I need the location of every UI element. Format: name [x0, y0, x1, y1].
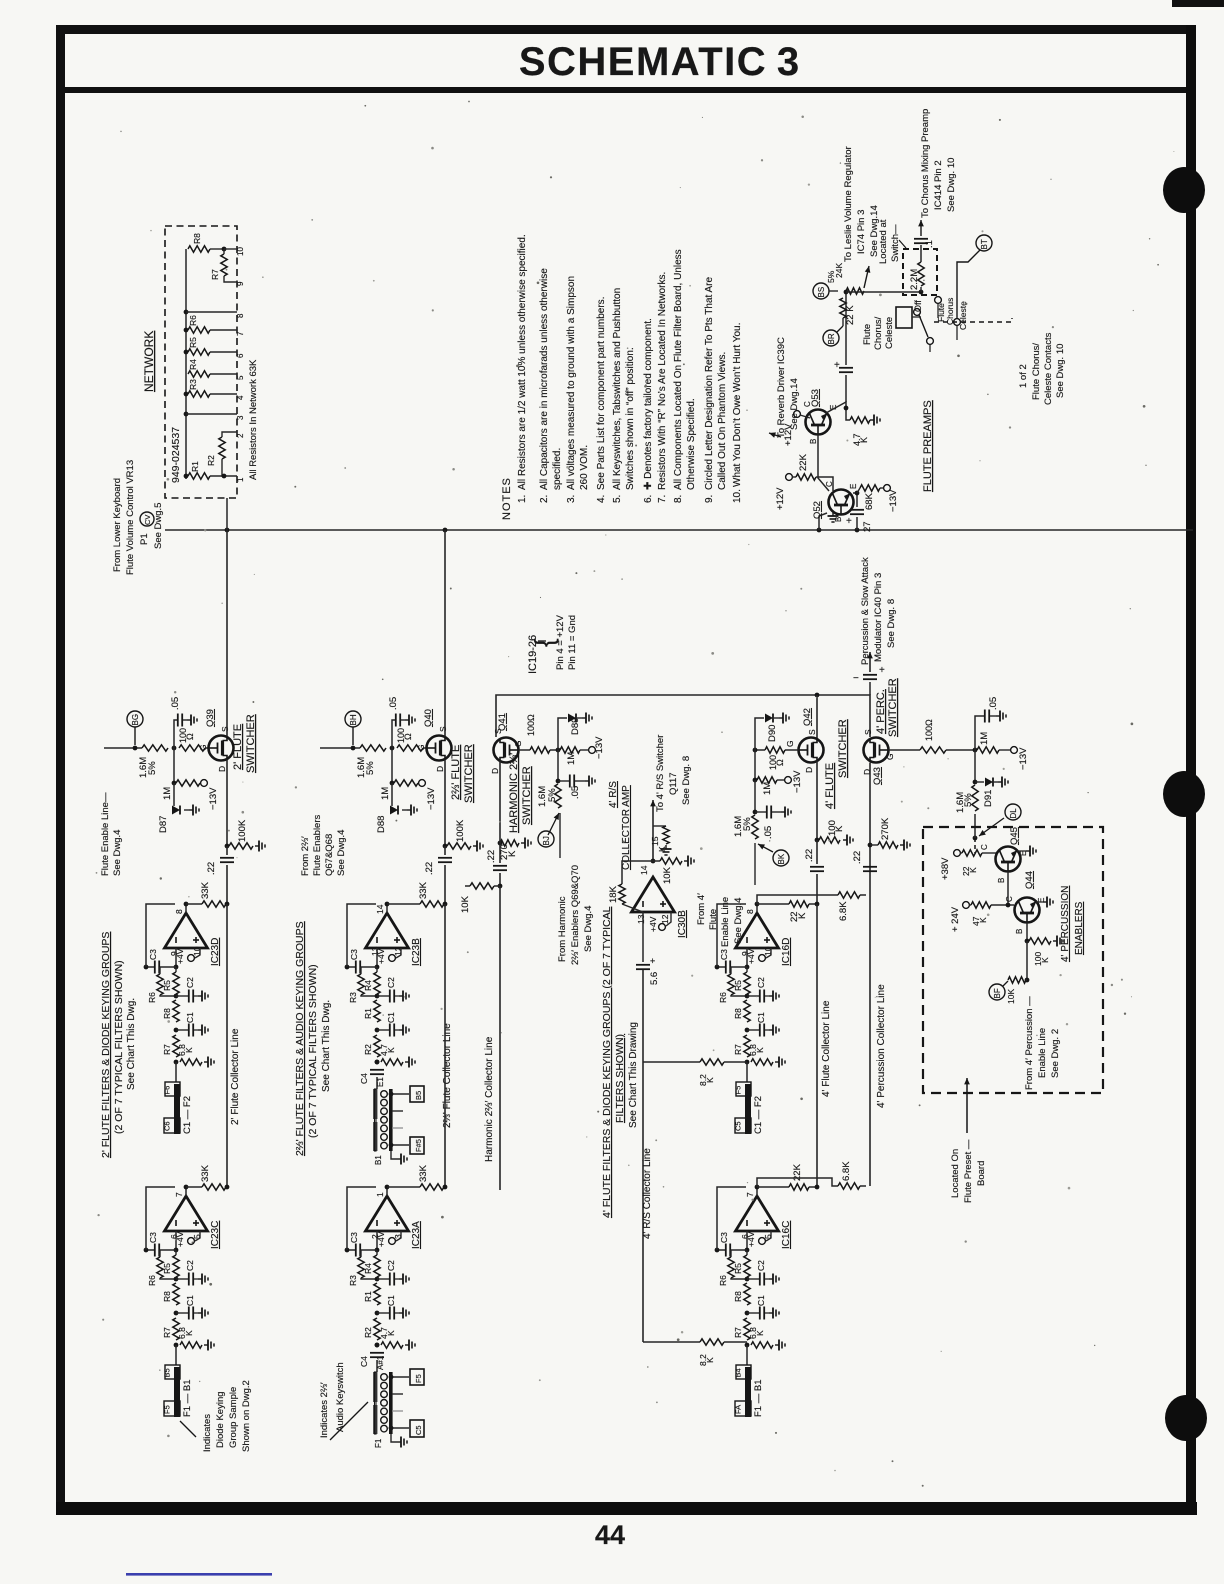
capacitor 5.6 on R/S collector line [642, 912, 644, 962]
ground at Q41 270K [521, 842, 525, 844]
resistor 100 ohm at Q42 gate [785, 749, 799, 751]
resistor R5 [746, 1250, 748, 1255]
capacitor C2 [176, 1278, 188, 1280]
svg-text:P1: P1 [139, 533, 150, 545]
wire and arrow to R/S switcher [652, 800, 654, 861]
svg-text:All Components Located On Flut: All Components Located On Flute Filter B… [673, 249, 684, 490]
resistor R5 [184, 350, 189, 355]
svg-text:100K: 100K [237, 819, 248, 842]
capacitor C2 [176, 995, 188, 997]
svg-text:Celeste: Celeste [884, 317, 895, 349]
svg-text:C3: C3 [719, 949, 729, 960]
keyswitch top note box F5 [410, 1369, 424, 1385]
svg-text:IC74 Pin 3: IC74 Pin 3 [856, 210, 867, 254]
contact celeste [954, 319, 961, 326]
svg-text:K: K [968, 867, 978, 873]
svg-text:+4V: +4V [648, 916, 658, 932]
keying sample boxes F5-C5 [736, 1082, 751, 1096]
svg-text:F6: F6 [163, 1086, 172, 1095]
svg-text:5: 5 [236, 375, 245, 380]
svg-text:18K: 18K [608, 885, 619, 903]
ground at Q42 .05 cap [772, 811, 781, 813]
svg-text:IC23A: IC23A [411, 1221, 422, 1249]
resistor 6.8K to ground [180, 1059, 202, 1065]
resistor 270K at Q43 collector [868, 843, 873, 848]
feedback wire to output node [347, 1187, 376, 1250]
svg-text:C2: C2 [185, 1260, 195, 1271]
resistor 8.2K on 4-ft R/S line [643, 1061, 700, 1063]
capacitor 27 at Q52 emitter [853, 493, 857, 507]
resistor 22K at Q45 [960, 852, 962, 854]
svg-text:100Ω: 100Ω [924, 719, 934, 741]
node Q41 enable feed [548, 813, 559, 835]
binding hole mark middle right [1163, 771, 1205, 817]
svg-text:BS: BS [817, 287, 826, 298]
svg-text:C3: C3 [148, 949, 158, 960]
svg-text:IC414 Pin 2: IC414 Pin 2 [933, 160, 944, 210]
svg-text:5.: 5. [612, 495, 623, 503]
svg-text:BF: BF [993, 988, 1002, 998]
capacitor percussion coupling to modulator [869, 682, 871, 695]
svg-text:B4: B4 [734, 1368, 743, 1377]
resistor 4.7K at Q53 emitter [826, 402, 850, 420]
svg-text:FILTERS SHOWN): FILTERS SHOWN) [614, 1034, 626, 1123]
svg-text:260 VOM.: 260 VOM. [579, 445, 590, 490]
resistor R1 [374, 1283, 380, 1305]
svg-text:Ω: Ω [403, 733, 413, 740]
svg-text:5.6: 5.6 [649, 972, 660, 985]
svg-text:.05: .05 [388, 697, 399, 710]
svg-text:C2: C2 [386, 1260, 396, 1271]
node below R7 [745, 1343, 750, 1348]
MOSFET Q41 [494, 738, 519, 763]
ground at C1 [194, 1312, 198, 1314]
resistor 100K on Q40 collector [443, 844, 448, 849]
resistor 6.8K to ground [751, 1059, 773, 1065]
resistor 22K feedback IC16D [757, 903, 789, 905]
svg-text:K: K [755, 1047, 765, 1053]
svg-text:4' PERC.: 4' PERC. [875, 689, 887, 734]
svg-text:All Resistors are 1/2 watt 10%: All Resistors are 1/2 watt 10% unless ot… [517, 234, 528, 490]
svg-text:33K: 33K [200, 881, 211, 899]
wire 4-ft R/S collector line [642, 970, 644, 1342]
svg-text:SWITCHER: SWITCHER [463, 744, 475, 803]
svg-text:2' Flute Collector Line: 2' Flute Collector Line [230, 1028, 241, 1125]
svg-text:R8: R8 [192, 233, 202, 244]
resistor R8 [744, 1283, 750, 1305]
svg-text:F1 — B1: F1 — B1 [182, 1380, 193, 1418]
svg-text:5%: 5% [365, 761, 376, 775]
svg-text:Located at: Located at [878, 219, 889, 264]
svg-text:Called Out On Phantom Views.: Called Out On Phantom Views. [717, 352, 728, 490]
svg-text:B1: B1 [374, 1155, 383, 1165]
audio keyswitch E1-B1 [376, 1077, 378, 1089]
svg-text:S: S [220, 726, 230, 732]
svg-text:1M: 1M [762, 782, 773, 795]
svg-text:C1: C1 [386, 1012, 396, 1023]
svg-text:Otherwise Specified.: Otherwise Specified. [686, 398, 697, 490]
svg-text:10: 10 [236, 247, 245, 256]
ground at C1 [765, 1312, 769, 1314]
svg-text:Q52: Q52 [812, 501, 823, 519]
svg-text:10K: 10K [662, 866, 673, 884]
wire 4-ft flute enable feed [754, 843, 756, 885]
svg-text:G: G [513, 740, 523, 747]
resistor 1.6M 5% at Q39 gate [142, 745, 168, 751]
node Q42 enable feed [758, 844, 773, 852]
ground at C1 [194, 1029, 198, 1031]
capacitor C4 [375, 1343, 380, 1348]
svg-text:Diode Keying: Diode Keying [215, 1391, 226, 1448]
ground at 6.8K [204, 1061, 208, 1063]
svg-text:27: 27 [862, 521, 873, 532]
resistor 1.6M 5% at Q41 [555, 784, 561, 808]
label to reverb driver [769, 433, 781, 437]
op-amp IC16D [736, 913, 779, 948]
svg-text:C: C [1005, 896, 1014, 902]
label indicates audio keyswitch [330, 1402, 368, 1440]
node below R7 [745, 1060, 750, 1065]
svg-text:From Harmonic: From Harmonic [557, 896, 568, 962]
ground at C2 [765, 995, 769, 997]
svg-text:D87: D87 [158, 816, 169, 833]
svg-text:R3: R3 [348, 992, 358, 1003]
wire 2-ft flute collector line lower [226, 904, 228, 1187]
svg-text:−: − [853, 673, 859, 684]
svg-text:See Dwg. 8: See Dwg. 8 [681, 756, 692, 805]
node junction 4-ft switcher on bus [815, 693, 820, 698]
network left rail wire [185, 249, 187, 479]
svg-text:To 4' R/S Switcher: To 4' R/S Switcher [655, 735, 666, 812]
wire op-amp inverting input feed [376, 1231, 378, 1250]
wire op-amp inverting input feed [376, 948, 378, 967]
svg-text:Ω: Ω [775, 759, 785, 766]
svg-text:1M: 1M [162, 787, 173, 800]
wire IC16D output node [756, 904, 758, 913]
resistor 33K feedback [420, 1184, 444, 1190]
ground at Q40 .05 cap [401, 719, 405, 721]
resistor 33K feedback [420, 901, 444, 907]
node below R5 [745, 994, 750, 999]
diode D90 [755, 718, 764, 750]
svg-text:R8: R8 [733, 1008, 743, 1019]
svg-text:1M: 1M [380, 787, 391, 800]
svg-text:D89: D89 [570, 718, 581, 735]
svg-text:.22: .22 [206, 862, 217, 875]
keying sample boxes B5-F5 [165, 1365, 180, 1379]
svg-text:+: + [650, 956, 655, 966]
ground at Q42 100K [843, 839, 847, 841]
blue pen mark bottom left [126, 1573, 272, 1576]
svg-text:See Dwg.4: See Dwg.4 [336, 830, 347, 876]
svg-text:G: G [198, 744, 208, 751]
svg-text:R7: R7 [733, 1327, 743, 1338]
network pin 8 wire [184, 310, 189, 315]
svg-text:IC16D: IC16D [781, 938, 792, 966]
node below R4 [375, 1277, 380, 1282]
diode D87 [173, 783, 175, 806]
resistor 33K feedback [202, 901, 226, 907]
resistor 100 ohm at Q43 gate [889, 749, 921, 751]
svg-text:ENABLERS: ENABLERS [1074, 901, 1085, 955]
resistor R8 [173, 1283, 179, 1305]
capacitor .05 at Q40 [392, 720, 395, 748]
svg-text:1M: 1M [979, 732, 990, 745]
resistor 100 ohm at Q41 gate [519, 749, 531, 751]
resistor 22K to BR [840, 298, 846, 318]
terminal -13V at Q40 [419, 780, 426, 787]
resistor 22K feedback IC16C [756, 1187, 758, 1196]
svg-text:R7: R7 [210, 269, 220, 280]
svg-text:33K: 33K [418, 881, 429, 899]
op-amp IC30B [632, 877, 675, 912]
capacitor C1 [747, 1029, 759, 1031]
capacitor .22 on harmonic collector line [493, 865, 507, 867]
svg-text:IC30B: IC30B [677, 910, 688, 938]
svg-text:6.8K: 6.8K [841, 1161, 852, 1181]
ground at C1 [765, 1029, 769, 1031]
svg-text:S: S [438, 726, 448, 732]
capacitor .1 to chorus mixing preamp [914, 238, 928, 240]
svg-text:To Leslie Volume Regulator: To Leslie Volume Regulator [843, 146, 854, 262]
svg-text:+ 24V: + 24V [950, 906, 961, 932]
resistor R7 [744, 1035, 750, 1057]
svg-text:BT: BT [980, 239, 989, 249]
node below R4 [375, 994, 380, 999]
svg-text:All Capacitors are in microfar: All Capacitors are in microfarads unless… [539, 268, 550, 490]
svg-text:9.: 9. [704, 495, 715, 503]
keyswitch contact wires [392, 1376, 409, 1378]
svg-text:Q67&Q68: Q67&Q68 [324, 834, 335, 876]
svg-text:D: D [804, 767, 814, 773]
resistor 100 ohm at Q40 gate [397, 745, 423, 751]
svg-text:IC16C: IC16C [781, 1221, 792, 1249]
wire Q42 drain to 4-ft flute collector line [816, 761, 818, 841]
svg-text:K: K [386, 1330, 396, 1336]
resistor R5 [746, 967, 748, 972]
svg-text:BH: BH [349, 714, 358, 725]
resistor 1.6M 5% at Q40 gate [360, 745, 386, 751]
resistor R7 [744, 1318, 750, 1340]
ground at Q39 .05 cap [183, 719, 187, 721]
svg-text:5%: 5% [963, 793, 974, 807]
svg-text:K: K [184, 1330, 194, 1336]
resistor R3 [358, 1257, 364, 1278]
wire CV bus to Q52 base [819, 513, 827, 530]
ground at Q43 270K [900, 844, 904, 846]
svg-text:R8: R8 [733, 1291, 743, 1302]
resistor 6.8K at IC16D output [838, 892, 860, 898]
svg-text:.1: .1 [924, 240, 935, 248]
node below R8 [174, 1028, 179, 1033]
svg-text:E1: E1 [376, 1077, 385, 1087]
wire switch to chorus contact [912, 316, 921, 318]
svg-text:Indicates: Indicates [202, 1414, 213, 1452]
svg-text:R7: R7 [162, 1327, 172, 1338]
capacitor .22 on percussion collector line [863, 866, 877, 868]
svg-text:Switch—: Switch— [890, 224, 901, 262]
wire network output to CV bus [226, 498, 228, 530]
ground at C2 [395, 1278, 399, 1280]
svg-text:+: + [846, 516, 852, 527]
svg-text:All Keyswitches, Tabswitches a: All Keyswitches, Tabswitches and Pushbut… [612, 288, 623, 490]
svg-text:C1: C1 [185, 1295, 195, 1306]
wire op-amp output node [185, 1187, 187, 1196]
svg-text:IC23D: IC23D [210, 938, 221, 966]
svg-text:−13V: −13V [208, 787, 219, 810]
node junction on CV bus at 2-ft switcher [225, 528, 230, 533]
svg-text:K: K [978, 917, 988, 923]
svg-text:Q40: Q40 [423, 709, 434, 727]
svg-text:949-024537: 949-024537 [170, 427, 182, 483]
svg-text:Resistors With “R” No’s Are Lo: Resistors With “R” No’s Are Located In N… [657, 272, 668, 490]
svg-text:R5: R5 [733, 1263, 743, 1274]
svg-text:SCHEMATIC: SCHEMATIC [519, 40, 767, 84]
svg-text:What You Don’t Owe Won’t Hurt: What You Don’t Owe Won’t Hurt You. [732, 323, 743, 487]
svg-text:S: S [807, 729, 817, 735]
svg-text:6: 6 [236, 353, 245, 358]
resistor 1M at Q40 [391, 748, 393, 783]
capacitor C3 [717, 1249, 725, 1251]
svg-text:K: K [859, 437, 869, 443]
transistor Q45 [996, 847, 1021, 872]
svg-text:Flute Preset —: Flute Preset — [963, 1139, 974, 1203]
svg-text:Q42: Q42 [802, 708, 813, 726]
svg-text:Pin 11 = Gnd: Pin 11 = Gnd [567, 615, 578, 670]
capacitor C3 [146, 1249, 154, 1251]
svg-text:5%: 5% [147, 761, 158, 775]
svg-text:R6: R6 [718, 1275, 728, 1286]
wire op-amp inverting input feed [746, 1231, 748, 1250]
svg-text:BJ: BJ [542, 836, 551, 845]
svg-text:IC23B: IC23B [411, 938, 422, 966]
svg-text:NOTES: NOTES [501, 477, 513, 520]
svg-text:R8: R8 [162, 1008, 172, 1019]
wire op-amp inverting input feed [746, 948, 748, 967]
svg-text:C1: C1 [756, 1012, 766, 1023]
wire Q40 drain to collector line [444, 760, 446, 847]
svg-text:B: B [1015, 929, 1024, 934]
svg-text:Audio Keyswitch: Audio Keyswitch [335, 1362, 346, 1432]
svg-text:COLLECTOR AMP: COLLECTOR AMP [621, 785, 632, 870]
resistor R6 [157, 974, 163, 995]
node below R1 [375, 1311, 380, 1316]
node junction Q41 gate rail [556, 748, 561, 753]
svg-text:HARMONIC 2⅔′: HARMONIC 2⅔′ [508, 753, 520, 833]
node below R1 [375, 1028, 380, 1033]
capacitor C2 [747, 1278, 759, 1280]
svg-text:C5: C5 [414, 1425, 423, 1435]
capacitor C2 [377, 995, 389, 997]
resistor R5 [175, 1250, 177, 1255]
resistor 1M at Q39 [173, 748, 175, 783]
svg-text:From 2⅔′: From 2⅔′ [300, 836, 311, 876]
ground at Q40 100K [473, 845, 477, 847]
svg-text:G: G [785, 740, 795, 747]
svg-text:Q43: Q43 [872, 767, 883, 785]
resistor R2 [374, 1035, 380, 1057]
resistor 1.6M 5% at Q43 [972, 785, 978, 811]
svg-text:Board: Board [976, 1161, 987, 1186]
svg-text:CV: CV [143, 515, 152, 525]
wire enable feed to Q39 [104, 747, 142, 749]
svg-text:C4: C4 [359, 1356, 369, 1367]
capacitor .05 at Q42 [754, 780, 756, 812]
wire percussion collector line [869, 763, 871, 1187]
node below R2 [375, 1060, 380, 1065]
svg-text:+38V: +38V [940, 857, 951, 880]
circled node DL [1005, 804, 1021, 820]
ground at D91 [993, 781, 998, 783]
svg-text:Located On: Located On [950, 1149, 961, 1198]
svg-text:Group Sample: Group Sample [228, 1387, 239, 1448]
ground at C2 [194, 1278, 198, 1280]
resistor R1 [184, 474, 189, 479]
svg-text:C3: C3 [148, 1232, 158, 1243]
svg-text:R6: R6 [147, 1275, 157, 1286]
ground at C2 [194, 995, 198, 997]
node below R8 [745, 1028, 750, 1033]
ground at diode D87 [184, 809, 189, 811]
svg-text:Chorus/: Chorus/ [873, 316, 884, 350]
svg-text:R5: R5 [188, 337, 198, 348]
resistor 10K at IC30B output [653, 860, 660, 862]
feedback wire to output node [146, 1187, 175, 1250]
svg-text:BK: BK [777, 853, 786, 864]
capacitor .22 on Q40 collector line [444, 846, 446, 855]
svg-text:Switches shown in “off” positi: Switches shown in “off” position. [625, 347, 636, 490]
svg-text:K: K [797, 912, 808, 919]
wire 4-ft switcher source drop [816, 695, 818, 739]
terminal -13V at Q42 [777, 779, 784, 781]
svg-text:C1: C1 [185, 1012, 195, 1023]
svg-text:R6: R6 [147, 992, 157, 1003]
keying sample boxes B4-FA [736, 1365, 751, 1379]
svg-text:See Dwg.5: See Dwg.5 [153, 503, 164, 549]
svg-text:D88: D88 [376, 816, 387, 833]
wire Q45 base to Q44 collector [1008, 872, 1014, 906]
svg-text:44: 44 [595, 1520, 625, 1550]
node junction chorus feed [844, 290, 849, 295]
terminal +12V at Q53 [794, 411, 801, 418]
circled node BG [127, 711, 143, 727]
svg-text:C5: C5 [734, 1121, 743, 1131]
svg-text:1M: 1M [566, 752, 577, 765]
capacitor .05 at Q41 [557, 750, 559, 781]
svg-text:specified.: specified. [552, 448, 563, 490]
svg-text:All voltages measured to groun: All voltages measured to ground with a S… [566, 276, 577, 490]
resistor 270K on harmonic collector line [498, 841, 503, 846]
capacitor .05 at Q43 [975, 716, 984, 750]
svg-text:.22: .22 [486, 850, 497, 863]
svg-text:+: + [834, 360, 840, 371]
wire Q39 source to CV bus [226, 530, 228, 737]
svg-text:1: 1 [236, 477, 245, 482]
ground at C2 [395, 995, 399, 997]
ground at D90 [773, 717, 779, 719]
svg-text:B5: B5 [163, 1368, 172, 1377]
resistor 6.8K to ground [751, 1342, 773, 1348]
resistor R6 [728, 974, 734, 995]
svg-text:F5: F5 [414, 1374, 423, 1383]
svg-text:−13V: −13V [426, 787, 437, 810]
svg-text:R2: R2 [206, 455, 216, 466]
svg-text:See Parts List for component p: See Parts List for component part number… [596, 297, 607, 490]
capacitor C2 [377, 1278, 389, 1280]
svg-text:R2: R2 [363, 1327, 373, 1338]
svg-text:K: K [1040, 957, 1050, 963]
svg-text:1: 1 [375, 1192, 385, 1197]
